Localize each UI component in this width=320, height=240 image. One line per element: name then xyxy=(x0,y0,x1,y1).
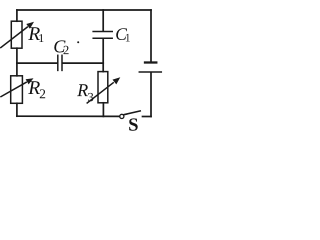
resistor R1 (variable) xyxy=(1,21,34,48)
wire top rail xyxy=(17,9,151,11)
wire middle-right (C2 to C1/R3 branch) xyxy=(63,62,103,64)
label C2 xyxy=(54,40,68,54)
wire C1 branch upper (top rail to C1) xyxy=(102,10,104,31)
wire R3 bottom (R3 to bottom rail) xyxy=(102,103,104,117)
capacitor C1 xyxy=(93,32,112,39)
wire bottom-right (switch to right rail) xyxy=(143,116,152,118)
label S xyxy=(129,118,138,130)
capacitor C2 xyxy=(58,55,62,70)
resistor R2 (variable) xyxy=(1,76,34,104)
wire left upper (top rail to R1) xyxy=(16,10,18,21)
switch S xyxy=(120,111,140,119)
label C1 xyxy=(116,28,130,41)
wire C1 to middle junction to R3 xyxy=(102,39,104,72)
label R2 xyxy=(28,81,45,98)
wire right lower (battery to bottom rail) xyxy=(150,73,152,117)
wire left middle (R1 bottom to R2 top) xyxy=(16,48,18,76)
label R1 xyxy=(28,27,43,42)
wire right upper (top rail to battery) xyxy=(150,10,152,62)
wire middle-left (left rail to C2) xyxy=(17,62,57,64)
stray dot after C2 xyxy=(77,41,79,43)
wire bottom-left (left rail to switch) xyxy=(17,115,120,117)
wire left lower (R2 bottom to bottom rail) xyxy=(16,103,18,116)
resistor R3 (variable) xyxy=(87,72,120,103)
battery cell xyxy=(139,63,161,73)
label R3 xyxy=(77,84,93,101)
